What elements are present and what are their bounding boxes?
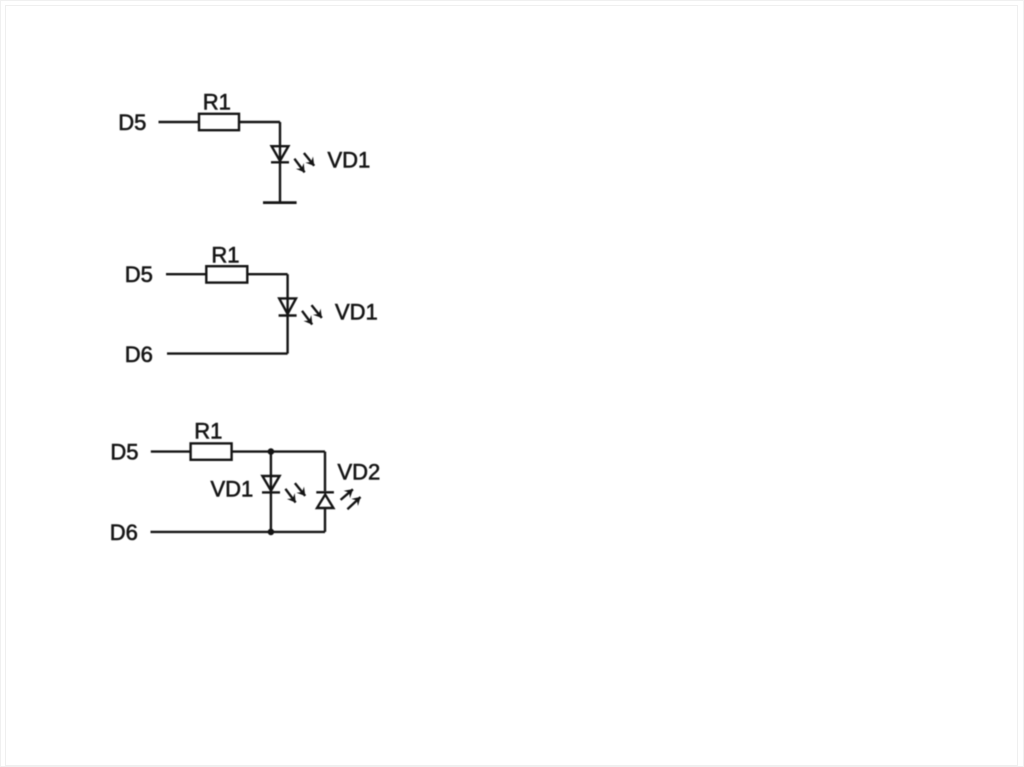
svg-text:D5: D5 [125,262,153,287]
svg-text:R1: R1 [194,418,222,443]
svg-text:D5: D5 [118,110,146,135]
svg-text:VD1: VD1 [328,147,371,172]
svg-text:D6: D6 [110,520,138,545]
svg-text:R1: R1 [211,242,239,267]
svg-text:VD1: VD1 [335,300,378,325]
svg-text:VD2: VD2 [338,460,381,485]
svg-text:VD1: VD1 [211,476,254,501]
svg-text:R1: R1 [203,90,231,115]
svg-text:D6: D6 [125,342,153,367]
svg-text:D5: D5 [110,439,138,464]
